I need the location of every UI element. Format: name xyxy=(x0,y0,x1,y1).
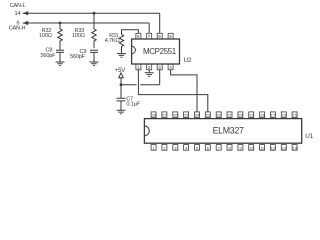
resistor R31 xyxy=(119,35,123,54)
resistor R32 xyxy=(58,23,62,50)
wire R31 top to MCP2551 pin 8 xyxy=(122,30,139,35)
ground below R31 xyxy=(117,54,126,58)
wire U2 pin 3 to +5V (crosses pin1 wire with break) xyxy=(121,70,160,85)
op-amp U2 notch xyxy=(132,46,136,54)
svg-text:23: 23 xyxy=(206,113,211,118)
svg-text:100Ω: 100Ω xyxy=(72,33,85,39)
op-amp U2 label MCP2551 xyxy=(143,47,177,56)
svg-text:19: 19 xyxy=(249,113,254,118)
pin 22 of U1 xyxy=(216,112,222,118)
capacitor C8 label xyxy=(41,48,57,59)
svg-text:27: 27 xyxy=(162,113,167,118)
ground below C7 xyxy=(117,110,126,114)
pin 27 of U1 xyxy=(162,112,168,118)
svg-text:CAN-H: CAN-H xyxy=(9,25,26,31)
wire U2 pin 4 (RXD) to U1 pin 24 xyxy=(171,70,197,112)
pin 5 of U1 xyxy=(195,145,200,151)
resistor R32 label xyxy=(39,28,52,39)
pin 20 of U1 xyxy=(238,112,244,118)
op-amp U1 refdes xyxy=(305,133,313,140)
pin 1 of U2 xyxy=(136,64,141,70)
svg-text:22: 22 xyxy=(217,113,222,118)
pin 5 of U2 xyxy=(168,33,173,39)
wire CAN-H arrowhead xyxy=(23,21,29,25)
pin 2 of U1 xyxy=(162,145,167,151)
wire CAN-H horizontal rail xyxy=(23,22,150,24)
capacitor C8 xyxy=(56,50,64,62)
pin 11 of U1 xyxy=(260,145,265,151)
svg-text:560pF: 560pF xyxy=(41,53,57,59)
pin 25 of U1 xyxy=(184,112,190,118)
pin 21 of U1 xyxy=(227,112,233,118)
svg-text:24: 24 xyxy=(195,113,200,118)
pin 4 of U1 xyxy=(184,145,189,151)
svg-text:25: 25 xyxy=(184,113,189,118)
pin 8 of U2 xyxy=(136,33,141,39)
wire +5V rail down to C7 xyxy=(120,78,122,99)
svg-text:0.1µF: 0.1µF xyxy=(126,102,140,108)
pin 12 of U1 xyxy=(270,145,276,151)
svg-text:U2: U2 xyxy=(184,57,192,64)
node CAN-H label xyxy=(9,25,26,31)
svg-text:21: 21 xyxy=(227,113,232,118)
pin 9 of U1 xyxy=(238,145,243,151)
svg-text:MCP2551: MCP2551 xyxy=(143,47,177,56)
pin 17 of U1 xyxy=(270,112,276,118)
pin 3 of U2 xyxy=(157,64,162,70)
resistor R33 label xyxy=(72,28,85,39)
power +5V label xyxy=(115,68,125,74)
ground below C9 xyxy=(90,62,99,66)
pin 7 of U1 xyxy=(216,145,221,151)
svg-text:ELM327: ELM327 xyxy=(213,125,244,135)
svg-text:10: 10 xyxy=(249,145,254,150)
pin 13 of U1 xyxy=(281,145,287,151)
svg-text:28: 28 xyxy=(152,113,157,118)
svg-text:+5V: +5V xyxy=(115,68,125,74)
op-amp U2 refdes xyxy=(184,57,192,64)
svg-text:18: 18 xyxy=(260,113,265,118)
svg-text:2: 2 xyxy=(148,65,151,70)
wire U2 pin 1 (TXD) to U1 pin 23 xyxy=(138,70,207,112)
svg-text:12: 12 xyxy=(271,145,276,150)
pin 28 of U1 xyxy=(151,112,157,118)
svg-text:3: 3 xyxy=(158,65,161,70)
capacitor C9 xyxy=(90,50,98,62)
op-amp U1 notch xyxy=(144,126,149,136)
capacitor C7 label xyxy=(126,97,140,108)
ground below U2 pin 2 xyxy=(145,70,154,77)
pin 2 of U2 xyxy=(147,64,152,70)
svg-text:4.7KΩ: 4.7KΩ xyxy=(105,38,120,44)
op-amp U1 ELM327 body xyxy=(144,119,301,144)
svg-text:6: 6 xyxy=(158,34,161,39)
svg-text:5: 5 xyxy=(169,34,172,39)
svg-text:100Ω: 100Ω xyxy=(39,33,52,39)
pin 1 of U1 xyxy=(151,145,156,151)
wire CAN-L horizontal rail xyxy=(23,12,160,14)
svg-text:560pF: 560pF xyxy=(70,54,86,60)
node junction +5V / U2 pin3 wire xyxy=(120,83,123,86)
svg-text:20: 20 xyxy=(238,113,243,118)
pin 24 of U1 xyxy=(195,112,201,118)
svg-text:17: 17 xyxy=(271,113,276,118)
pin 15 of U1 xyxy=(292,112,298,118)
svg-text:U1: U1 xyxy=(305,133,313,140)
pin 10 of U1 xyxy=(249,145,255,151)
pin 3 of U1 xyxy=(173,145,178,151)
pin 6 of U2 xyxy=(157,33,162,39)
node CAN-L label xyxy=(10,3,26,9)
svg-text:1: 1 xyxy=(137,65,140,70)
svg-text:15: 15 xyxy=(293,113,298,118)
svg-text:8: 8 xyxy=(137,34,140,39)
op-amp U2 MCP2551 body xyxy=(132,39,180,64)
node junction CAN-L / R33 xyxy=(93,12,96,15)
svg-text:CAN-L: CAN-L xyxy=(10,3,26,9)
node CAN-H pin number 6 xyxy=(17,21,20,27)
pin 7 of U2 xyxy=(147,33,152,39)
pin 23 of U1 xyxy=(205,112,211,118)
ground below C8 xyxy=(56,62,65,66)
pin 26 of U1 xyxy=(173,112,179,118)
svg-text:14: 14 xyxy=(293,145,298,150)
power +5V arrow symbol xyxy=(119,73,124,78)
pin 18 of U1 xyxy=(260,112,266,118)
node junction CAN-H / R32 xyxy=(59,22,62,25)
svg-text:16: 16 xyxy=(282,113,287,118)
pin 14 of U1 xyxy=(292,145,298,151)
resistor R31 label xyxy=(105,33,120,44)
wire CAN-H drop to MCP2551 pin 7 xyxy=(148,23,150,33)
capacitor C7 xyxy=(117,98,126,110)
resistor R33 xyxy=(92,13,96,48)
svg-text:7: 7 xyxy=(148,34,151,39)
svg-text:4: 4 xyxy=(169,65,172,70)
svg-text:13: 13 xyxy=(282,145,287,150)
node CAN-L pin number 14 xyxy=(15,11,21,17)
pin 6 of U1 xyxy=(205,145,210,151)
svg-text:26: 26 xyxy=(173,113,178,118)
pin 16 of U1 xyxy=(281,112,287,118)
wire CAN-L arrowhead xyxy=(23,11,29,15)
wire CAN-L drop to MCP2551 pin 6 xyxy=(159,13,161,33)
svg-text:14: 14 xyxy=(15,11,21,17)
pin 8 of U1 xyxy=(227,145,232,151)
pin 4 of U2 xyxy=(168,64,173,70)
capacitor C9 label xyxy=(70,49,86,60)
op-amp U1 label ELM327 xyxy=(213,125,244,135)
pin 19 of U1 xyxy=(249,112,255,118)
